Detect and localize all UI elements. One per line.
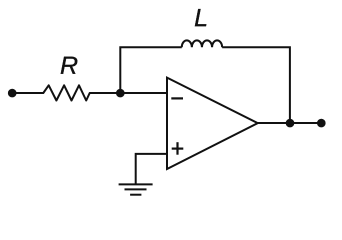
svg-text:R: R — [60, 52, 78, 80]
svg-text:L: L — [194, 4, 208, 32]
